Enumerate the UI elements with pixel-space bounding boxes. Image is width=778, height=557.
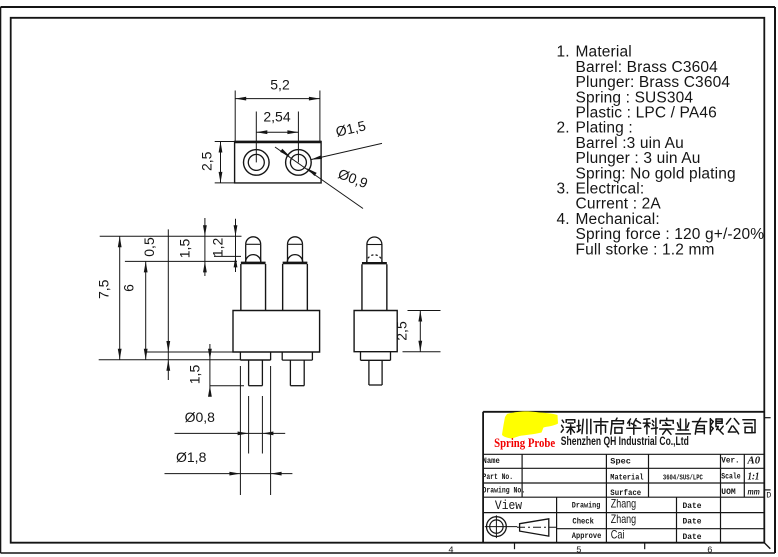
svg-text:2.: 2. (557, 120, 570, 137)
svg-text:Ø0,8: Ø0,8 (185, 409, 216, 425)
svg-text:4: 4 (448, 546, 453, 556)
svg-text:Zhang: Zhang (611, 512, 636, 526)
svg-text:Approve: Approve (572, 532, 602, 541)
svg-text:5: 5 (576, 546, 581, 556)
svg-text:Zhang: Zhang (611, 496, 636, 510)
svg-text:UOM: UOM (721, 488, 736, 497)
svg-text:mm: mm (748, 486, 761, 496)
svg-text:Shenzhen QH Industrial Co.,Ltd: Shenzhen QH Industrial Co.,Ltd (561, 436, 689, 448)
svg-text:Date: Date (683, 502, 702, 511)
svg-text:1,5: 1,5 (177, 239, 193, 259)
svg-text:Name: Name (483, 457, 500, 466)
svg-text:Material: Material (610, 474, 643, 483)
svg-text:6: 6 (121, 284, 137, 292)
svg-text:1,2: 1,2 (210, 237, 226, 257)
svg-text:Ver.: Ver. (721, 457, 739, 466)
svg-text:5,2: 5,2 (270, 77, 290, 93)
svg-text:Cai: Cai (611, 527, 625, 541)
svg-text:6: 6 (707, 546, 712, 556)
svg-text:Full storke : 1.2 mm: Full storke : 1.2 mm (576, 241, 715, 258)
svg-text:1.: 1. (557, 44, 570, 61)
svg-text:0,5: 0,5 (141, 237, 157, 257)
svg-text:4.: 4. (557, 211, 570, 228)
svg-text:Date: Date (683, 518, 702, 527)
svg-text:Ø0,9: Ø0,9 (336, 165, 370, 191)
svg-text:3604/SUS/LPC: 3604/SUS/LPC (663, 474, 703, 482)
svg-text:Spec: Spec (610, 458, 631, 467)
svg-text:1,5: 1,5 (187, 365, 203, 385)
svg-text:Ø1,5: Ø1,5 (334, 117, 367, 139)
svg-text:Drawing No.: Drawing No. (483, 487, 526, 496)
svg-text:View: View (495, 498, 522, 513)
svg-text:Date: Date (683, 533, 702, 542)
svg-text:2,5: 2,5 (199, 151, 215, 171)
svg-text:1:1: 1:1 (748, 471, 760, 483)
svg-text:Drawing: Drawing (572, 502, 601, 511)
svg-text:2,5: 2,5 (394, 321, 410, 341)
svg-text:Part No.: Part No. (483, 473, 514, 482)
svg-text:Scale: Scale (721, 473, 741, 482)
svg-text:A0: A0 (747, 455, 761, 467)
svg-text:2,54: 2,54 (263, 108, 290, 124)
svg-text:Ø1,8: Ø1,8 (176, 449, 207, 465)
svg-text:3.: 3. (557, 181, 570, 198)
svg-text:Check: Check (572, 517, 594, 526)
svg-text:Spring Probe: Spring Probe (494, 435, 555, 450)
svg-text:D: D (766, 491, 771, 501)
svg-text:7,5: 7,5 (96, 279, 112, 299)
